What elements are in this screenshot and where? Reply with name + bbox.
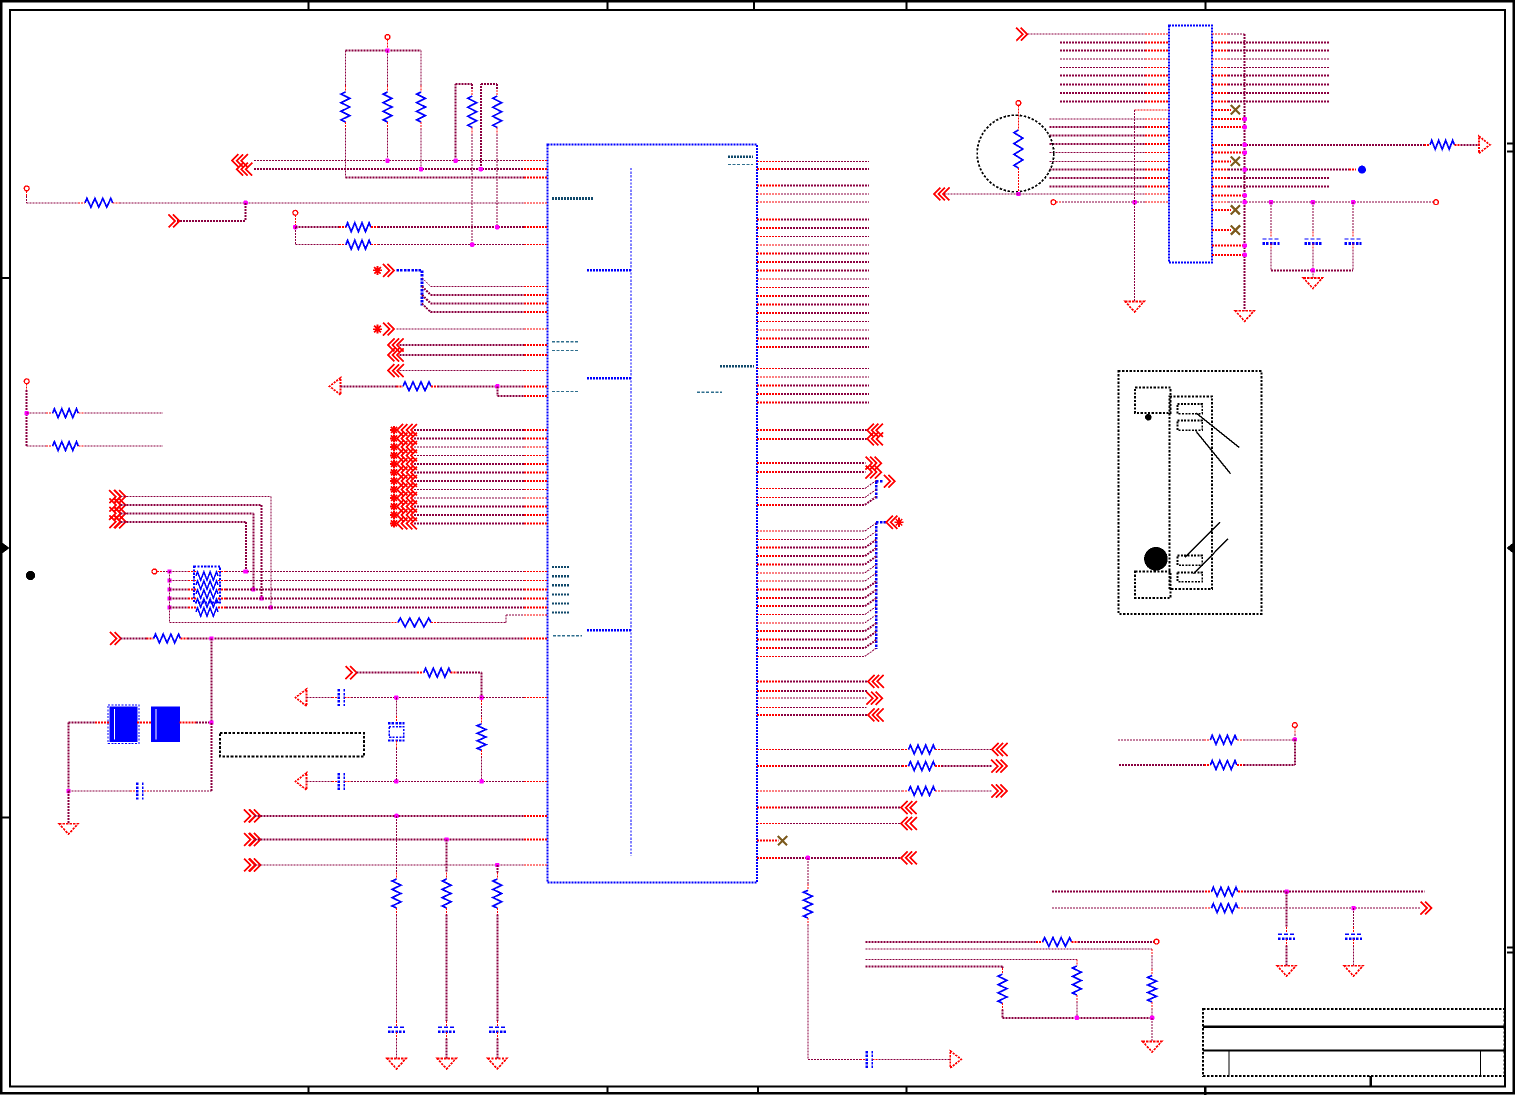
- ground stem: [1312, 270, 1314, 278]
- stub: [395, 716, 397, 723]
- wire: [781, 680, 867, 682]
- wire: [781, 647, 865, 649]
- wire net: [781, 393, 869, 395]
- pin stub: [757, 270, 781, 272]
- wire row F: [378, 244, 524, 246]
- pin stub: [757, 572, 781, 574]
- junction: [293, 225, 297, 229]
- capacitor: [1278, 934, 1295, 939]
- stub: [872, 1058, 878, 1060]
- pin stub: [1145, 66, 1169, 68]
- wire: [1119, 764, 1204, 766]
- wire net: [781, 304, 869, 306]
- wire vertical: [396, 915, 398, 1021]
- pin stub: [757, 376, 781, 378]
- star flag bus: [373, 266, 382, 275]
- IC pin number text: [552, 611, 570, 613]
- port arrow output: [866, 466, 882, 479]
- port arrow: [397, 518, 407, 530]
- pin stub: [757, 840, 779, 842]
- pin stub: [1145, 193, 1169, 195]
- crystal X1 plate top: [388, 722, 405, 724]
- pin stub: [757, 680, 781, 682]
- wire net: [1228, 42, 1330, 44]
- no-connect X: [1231, 226, 1240, 235]
- port arrow input: [244, 809, 255, 822]
- pin stub: [757, 555, 781, 557]
- junction: [260, 596, 264, 600]
- stub: [137, 722, 152, 724]
- open arrow left: [296, 773, 307, 790]
- pin stub: [757, 329, 781, 331]
- pin stub: [757, 219, 781, 221]
- pin stub: [1145, 169, 1169, 171]
- hook wire 1 top: [456, 83, 473, 85]
- resistor R4: [468, 96, 477, 128]
- pin stub: [1212, 58, 1228, 60]
- component Y1 body A: [110, 707, 137, 742]
- capacitor decoupling: [1263, 239, 1280, 244]
- IC U1 section line 3: [587, 629, 631, 631]
- wire row D: [120, 202, 524, 204]
- wire: [1118, 739, 1204, 741]
- pin stub: [757, 278, 781, 280]
- stub: [344, 697, 351, 699]
- ground: [488, 1058, 507, 1069]
- junction: [1243, 193, 1247, 197]
- stub: [481, 750, 483, 756]
- wire vertical: [446, 915, 448, 1021]
- wire: [481, 757, 483, 782]
- pin stub: [524, 302, 548, 304]
- wire: [1052, 891, 1205, 893]
- title block left tick: [1204, 1087, 1206, 1096]
- wire from R4: [471, 134, 473, 245]
- wire net: [1060, 100, 1145, 102]
- mech leader line 1: [1196, 413, 1239, 448]
- pin stub: [757, 614, 781, 616]
- wire: [781, 555, 865, 557]
- wire to R3: [420, 51, 422, 86]
- resistor R9: [403, 382, 431, 391]
- stub: [1237, 764, 1244, 766]
- stub: [397, 385, 404, 387]
- power stub: [26, 191, 28, 196]
- wire from R2: [387, 129, 389, 161]
- wire: [781, 622, 865, 624]
- stub: [1151, 1002, 1153, 1008]
- star flag: [390, 477, 398, 485]
- stub: [46, 445, 53, 447]
- junction: [385, 48, 389, 52]
- pin stub: [757, 236, 781, 238]
- port arrow: [407, 484, 417, 496]
- stub: [188, 607, 196, 609]
- pin stub: [1212, 109, 1231, 111]
- wire net: [781, 270, 869, 272]
- wire diagonal to bus: [865, 565, 876, 573]
- stub: [188, 589, 196, 591]
- wire net: [1060, 42, 1145, 44]
- wire net: [781, 244, 869, 246]
- IC pin number text: [552, 593, 570, 595]
- stub: [218, 598, 226, 600]
- stub: [130, 790, 136, 792]
- stub: [395, 741, 397, 749]
- pin stub: [1212, 66, 1228, 68]
- wire fan row: [431, 285, 524, 287]
- wire diagonal to bus: [865, 615, 876, 623]
- mech big circle: [1144, 547, 1168, 571]
- wire row: [27, 412, 46, 414]
- junction: [479, 167, 483, 171]
- pin stub: [1145, 177, 1169, 179]
- wire net: [255, 864, 525, 866]
- IC pin name text: [728, 164, 753, 166]
- wire row D: [27, 202, 78, 204]
- resistor series: [909, 787, 936, 796]
- port arrow: [407, 509, 417, 521]
- junction: [394, 814, 398, 818]
- wire: [781, 765, 902, 767]
- mech small dot: [1145, 414, 1152, 421]
- wire: [438, 385, 525, 387]
- junction: [1243, 125, 1247, 129]
- port arrow input: [346, 666, 357, 679]
- junction: [1243, 143, 1247, 147]
- pin stub: [757, 597, 781, 599]
- pin stub: [524, 177, 548, 179]
- pin stub: [524, 244, 548, 246]
- stub: [46, 412, 53, 414]
- star flag: [390, 468, 398, 476]
- pin stub: [757, 185, 781, 187]
- capacitor to ground: [489, 1027, 506, 1032]
- power stub: [387, 40, 389, 51]
- stub: [1270, 232, 1272, 238]
- ground: [387, 1058, 406, 1069]
- hook wire 1 down: [471, 84, 473, 90]
- wire diagonal to bus: [865, 531, 876, 539]
- wire net: [414, 472, 524, 474]
- wire fan diagonal: [422, 295, 431, 304]
- port arrow: [388, 349, 404, 362]
- wire row: [506, 614, 524, 616]
- wire net: [1228, 92, 1330, 94]
- wire rail: [1003, 1017, 1153, 1019]
- junction: [243, 569, 247, 573]
- pin stub: [1145, 83, 1169, 85]
- stub: [1312, 232, 1314, 238]
- wire vertical: [1294, 740, 1296, 766]
- stub: [1352, 232, 1354, 238]
- stub: [860, 1058, 866, 1060]
- stub: [496, 908, 498, 915]
- stub: [218, 580, 226, 582]
- pin stub: [757, 384, 781, 386]
- wire row: [226, 580, 524, 582]
- border zone tick left: [2, 277, 11, 279]
- wire row: [170, 607, 189, 609]
- junction: [1284, 890, 1288, 894]
- pin stub: [757, 160, 781, 162]
- wire from R1: [344, 129, 346, 178]
- wire: [69, 722, 96, 724]
- wire: [945, 193, 1146, 195]
- wire vertical: [210, 639, 212, 723]
- junction: [394, 695, 398, 699]
- reference black dot: [26, 571, 35, 580]
- pin stub: [757, 201, 781, 203]
- stub: [218, 589, 226, 591]
- junction: [167, 569, 171, 573]
- capacitor C4: [867, 1051, 872, 1068]
- pin stub: [757, 630, 781, 632]
- stub: [396, 1032, 398, 1039]
- pin: [1051, 200, 1056, 205]
- stub: [1286, 927, 1288, 933]
- pin stub: [524, 571, 548, 573]
- wire net: [414, 506, 524, 508]
- stub: [339, 226, 346, 228]
- star flag: [390, 443, 398, 451]
- pin stub: [757, 401, 781, 403]
- wire: [307, 697, 333, 699]
- pin stub: [524, 839, 548, 841]
- pin stub: [1145, 92, 1169, 94]
- wire fan diagonal: [422, 304, 431, 313]
- stub: [371, 244, 378, 246]
- wire: [120, 638, 146, 640]
- open arrow left: [330, 378, 341, 395]
- wire fan diagonal: [422, 286, 431, 295]
- junction: [453, 159, 457, 163]
- stub: [1002, 1003, 1004, 1009]
- pin stub: [757, 707, 781, 709]
- pin stub: [1212, 92, 1228, 94]
- IC pin name text: [697, 391, 722, 393]
- stub: [218, 571, 226, 573]
- no-connect X: [1231, 157, 1240, 166]
- wire: [781, 572, 865, 574]
- pin stub: [524, 589, 548, 591]
- pin stub: [757, 765, 781, 767]
- pin stub: [1212, 152, 1245, 154]
- wire net: [781, 384, 869, 386]
- junction: [244, 201, 248, 205]
- pin stub: [757, 338, 781, 340]
- stub: [420, 122, 422, 129]
- wire net: [414, 455, 524, 457]
- pin stub: [757, 605, 781, 607]
- wire vertical: [481, 673, 483, 698]
- port arrow: [407, 458, 417, 470]
- stub: [181, 638, 188, 640]
- ground: [1125, 301, 1144, 312]
- wire vertical: [496, 865, 498, 873]
- wire: [1228, 33, 1245, 35]
- stub: [1353, 927, 1355, 933]
- star flag: [390, 511, 398, 519]
- junction: [1150, 1016, 1154, 1020]
- wire diagonal to bus: [865, 581, 876, 589]
- wire: [781, 547, 865, 549]
- pin stub: [757, 438, 781, 440]
- port arrow: [397, 450, 407, 462]
- junction: [167, 596, 171, 600]
- mech pin window 1: [1178, 404, 1203, 414]
- pin stub: [1145, 152, 1169, 154]
- wire: [1460, 144, 1479, 146]
- wire: [781, 823, 901, 825]
- hook wire 2 top: [481, 83, 497, 85]
- wire net: [781, 312, 869, 314]
- wire row E: [295, 226, 339, 228]
- wire net: [781, 160, 869, 162]
- power stub: [26, 384, 28, 390]
- port arrow input: [115, 499, 126, 512]
- port arrow bus2: [886, 516, 897, 529]
- pin: [1434, 200, 1439, 205]
- port arrow: [901, 801, 917, 814]
- open arrow left: [296, 689, 307, 706]
- resistor network element: [196, 590, 218, 598]
- pin stub: [524, 285, 548, 287]
- wire diagonal to bus: [865, 648, 876, 656]
- wire diagonal to bus: [865, 573, 876, 581]
- border zone tick bottom: [308, 1087, 310, 1094]
- stub: [807, 884, 809, 890]
- ground: [1344, 966, 1363, 977]
- wire diagonal to bus: [865, 556, 876, 564]
- star flag bus2: [894, 518, 903, 527]
- stub: [1204, 739, 1211, 741]
- stub: [188, 580, 196, 582]
- wire: [1352, 202, 1354, 231]
- wire vertical: [261, 505, 263, 599]
- port arrow: [397, 501, 407, 513]
- wire: [457, 672, 482, 674]
- pin stub: [1212, 254, 1245, 256]
- hook wire 2 down: [496, 84, 498, 90]
- wire row E: [378, 226, 524, 228]
- junction: [1243, 243, 1247, 247]
- wire net: [1049, 152, 1145, 154]
- power rail: [345, 50, 421, 52]
- stub: [1238, 907, 1244, 909]
- pin stub: [1212, 42, 1228, 44]
- wire row: [226, 598, 524, 600]
- wire net: [781, 219, 869, 221]
- IC pin number text: [552, 602, 570, 604]
- wire: [1228, 144, 1424, 146]
- wire net: [781, 168, 869, 170]
- port arrow: [397, 424, 407, 436]
- stub: [1017, 105, 1019, 130]
- stub: [339, 244, 346, 246]
- wire: [150, 790, 211, 792]
- resistor R23: [1148, 976, 1157, 1003]
- port arrow input: [109, 507, 120, 520]
- junction: [1269, 200, 1273, 204]
- crystal X1 body: [389, 727, 404, 738]
- resistor series: [909, 762, 936, 771]
- pin stub: [757, 471, 781, 473]
- wire row b: [865, 948, 1152, 950]
- wire row d: [865, 966, 1002, 968]
- wire vertical left: [68, 723, 70, 792]
- stub: [144, 790, 150, 792]
- wire diagonal to bus: [865, 632, 876, 640]
- pin stub: [1212, 229, 1231, 231]
- port arrow: [867, 424, 883, 437]
- wire: [781, 504, 865, 506]
- wire: [781, 438, 867, 440]
- port arrow input: [244, 833, 255, 846]
- junction: [25, 411, 29, 415]
- wire row: [27, 445, 46, 447]
- junction: [495, 384, 499, 388]
- port arrow input: [249, 859, 260, 872]
- stub: [902, 749, 909, 751]
- star flag: [390, 426, 398, 434]
- port arrow output: [169, 214, 180, 227]
- port arrow input: [109, 515, 120, 528]
- ground: [1143, 1042, 1162, 1053]
- wire: [781, 614, 865, 616]
- title block line 1: [1203, 1026, 1505, 1028]
- stub: [1056, 201, 1062, 203]
- resistor R16: [1210, 735, 1236, 744]
- pin stub: [757, 304, 781, 306]
- wire vertical: [1286, 946, 1288, 966]
- wire jog: [505, 615, 507, 623]
- wire net: [781, 338, 869, 340]
- stub: [1205, 891, 1211, 893]
- wire net: [781, 287, 869, 289]
- wire net row B: [254, 168, 524, 170]
- pin stub: [1212, 177, 1228, 179]
- wire net: [781, 261, 869, 263]
- wire: [781, 714, 867, 716]
- wire row: [226, 571, 524, 573]
- component Y1 body B: [152, 707, 180, 742]
- wire net: [1060, 75, 1145, 77]
- pin stub: [1212, 118, 1245, 120]
- bus1 blue vertical: [875, 481, 878, 499]
- component Y1 body A inner: [114, 709, 116, 740]
- wire diagonal to bus: [865, 490, 876, 498]
- stub: [392, 622, 399, 624]
- stub: [1204, 764, 1211, 766]
- wire: [781, 488, 865, 490]
- junction: [1016, 192, 1020, 196]
- wire net: [781, 193, 869, 195]
- pin stub: [524, 370, 548, 372]
- pin stub: [524, 607, 548, 609]
- capacitor C1: [137, 783, 142, 800]
- stub: [496, 1021, 498, 1027]
- mech leader line 3: [1185, 522, 1220, 557]
- pin stub: [524, 328, 548, 330]
- wire net: [781, 185, 869, 187]
- stub: [935, 790, 941, 792]
- wire diagonal to bus: [865, 640, 876, 648]
- stub: [1237, 739, 1244, 741]
- no-connect X: [1231, 105, 1240, 114]
- power pin VCC4: [24, 379, 29, 384]
- wire stem: [169, 572, 171, 623]
